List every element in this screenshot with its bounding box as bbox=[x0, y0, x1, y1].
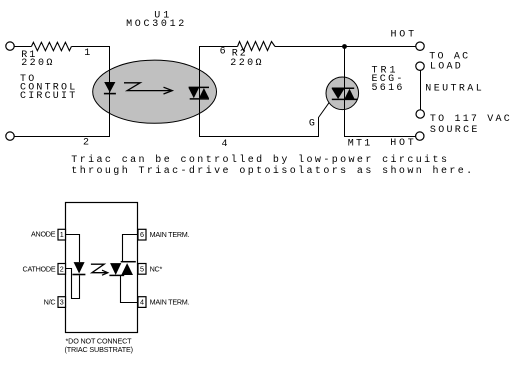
svg-text:(TRIAC SUBSTRATE): (TRIAC SUBSTRATE) bbox=[65, 345, 133, 354]
svg-text:MAIN TERM.: MAIN TERM. bbox=[150, 298, 190, 307]
svg-text:HOT: HOT bbox=[391, 30, 417, 41]
LED in U1 bbox=[104, 82, 116, 94]
wire LED cathode to pin 2 bbox=[65, 269, 79, 299]
svg-text:1: 1 bbox=[84, 48, 90, 59]
wire pins 6-4 vertical through U1 bbox=[199, 46, 201, 137]
svg-text:220Ω: 220Ω bbox=[21, 58, 55, 69]
svg-text:N/C: N/C bbox=[44, 297, 56, 306]
triac TR1 body bbox=[326, 77, 359, 110]
resistor R1 bbox=[31, 42, 71, 50]
wire pin1 to LED anode bbox=[65, 235, 79, 263]
DIP package body bbox=[66, 203, 138, 333]
svg-text:NC*: NC* bbox=[150, 265, 163, 274]
triac symbol in U1 bbox=[189, 87, 209, 99]
wire bbox=[14, 46, 31, 48]
wire bbox=[71, 46, 110, 48]
svg-text:TO 117 VAC: TO 117 VAC bbox=[430, 114, 512, 125]
terminal TO AC LOAD bbox=[416, 62, 424, 70]
terminal TO 117 VAC bbox=[416, 110, 424, 118]
pin 1 box bbox=[58, 229, 66, 240]
svg-text:3: 3 bbox=[60, 298, 64, 307]
light transfer arrow in DIP bbox=[91, 264, 108, 275]
svg-text:4: 4 bbox=[222, 139, 228, 150]
svg-text:SOURCE: SOURCE bbox=[430, 125, 480, 136]
svg-text:4: 4 bbox=[140, 298, 144, 307]
svg-text:5: 5 bbox=[140, 264, 144, 273]
wire bbox=[275, 46, 416, 48]
svg-text:G: G bbox=[309, 119, 315, 130]
pin 3 box bbox=[58, 297, 66, 308]
svg-text:CATHODE: CATHODE bbox=[23, 265, 56, 274]
junction dot bbox=[342, 44, 347, 49]
pin 4 box bbox=[138, 297, 146, 308]
wire MT2-MT1 vertical bbox=[344, 46, 346, 137]
terminal: control circuit top bbox=[6, 42, 14, 50]
wire pin4 to gate bbox=[199, 99, 332, 137]
svg-text:HOT: HOT bbox=[390, 138, 416, 149]
svg-text:1: 1 bbox=[60, 230, 64, 239]
wire pin6 to triac bbox=[123, 235, 139, 262]
svg-text:CIRCUIT: CIRCUIT bbox=[20, 91, 77, 102]
light transfer arrow in U1 bbox=[124, 83, 172, 94]
svg-text:MAIN TERM.: MAIN TERM. bbox=[150, 230, 190, 239]
terminal HOT bottom bbox=[416, 132, 424, 140]
svg-text:NEUTRAL: NEUTRAL bbox=[425, 83, 484, 94]
wire triac to pin 4 bbox=[121, 275, 139, 302]
svg-text:6: 6 bbox=[140, 230, 144, 239]
wire bbox=[199, 46, 238, 48]
svg-text:5616: 5616 bbox=[372, 83, 405, 94]
svg-text:220Ω: 220Ω bbox=[230, 58, 264, 69]
svg-text:2: 2 bbox=[83, 138, 89, 149]
optoisolator U1 body bbox=[93, 60, 217, 123]
svg-text:MT1: MT1 bbox=[348, 139, 373, 150]
wire MT1 to terminal bbox=[344, 136, 416, 138]
terminal: control circuit bottom bbox=[6, 132, 14, 140]
pin 5 box bbox=[138, 264, 146, 275]
pin 6 box bbox=[138, 229, 146, 240]
wire pins 1-2 vertical through U1 bbox=[109, 46, 111, 137]
svg-text:Triac can be controlled by low: Triac can be controlled by low-power cir… bbox=[71, 154, 449, 166]
wire neutral bbox=[420, 70, 422, 110]
triac TR1 symbol bbox=[332, 88, 357, 99]
svg-text:LOAD: LOAD bbox=[430, 61, 463, 72]
terminal HOT top bbox=[416, 42, 424, 50]
svg-text:through Triac-drive optoisolat: through Triac-drive optoisolators as sho… bbox=[71, 165, 474, 177]
svg-text:6: 6 bbox=[220, 47, 226, 58]
svg-text:2: 2 bbox=[60, 264, 64, 273]
pin 2 box bbox=[58, 264, 66, 275]
svg-text:ANODE: ANODE bbox=[31, 230, 56, 239]
resistor R2 bbox=[238, 42, 276, 51]
wire bbox=[14, 136, 110, 138]
LED in DIP bbox=[72, 262, 85, 274]
svg-text:MOC3012: MOC3012 bbox=[126, 19, 187, 30]
triac symbol in DIP bbox=[109, 262, 135, 276]
